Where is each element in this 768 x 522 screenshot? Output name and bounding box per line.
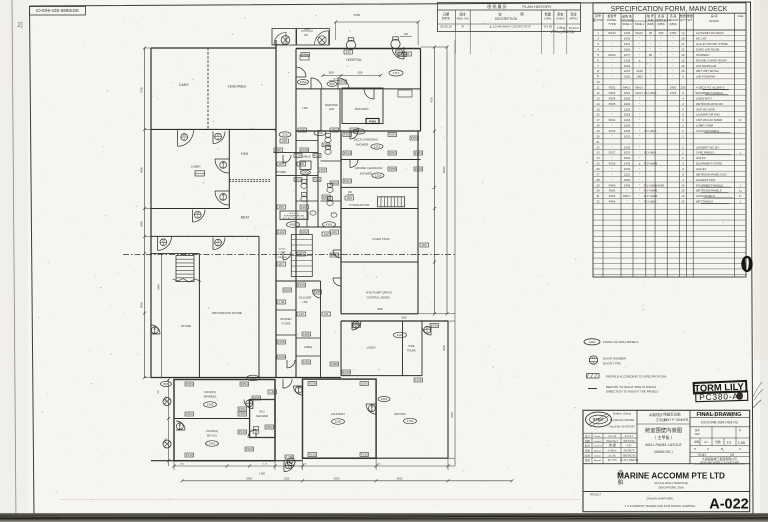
- hospital desk: [300, 55, 309, 60]
- svg-text:CLE: CLE: [738, 14, 744, 18]
- svg-text:VEGETABLE: VEGETABLE: [228, 85, 247, 89]
- svg-text:ALLWAYS UNIT: ALLWAYS UNIT: [696, 178, 716, 182]
- svg-text:2160: 2160: [670, 31, 677, 35]
- svg-text:P256: P256: [186, 382, 193, 386]
- svg-text:LOBBY: LOBBY: [191, 165, 201, 169]
- panel tag: [343, 179, 352, 183]
- wall: lobby bottom: [151, 208, 229, 210]
- svg-text:SPARE(A): SPARE(A): [203, 395, 216, 399]
- svg-text:05.10.1: 05.10.1: [625, 435, 634, 438]
- svg-text:19: 19: [596, 129, 600, 133]
- svg-text:WPS ALLOW LIQU (AT): WPS ALLOW LIQU (AT): [282, 217, 306, 220]
- svg-text:1000: 1000: [304, 28, 310, 31]
- svg-text:1062: 1062: [624, 124, 631, 128]
- svg-text:房 间: 房 间: [711, 13, 718, 18]
- oval 1717: [389, 70, 403, 76]
- panel tag: [360, 453, 369, 457]
- svg-text:": ": [660, 64, 661, 68]
- svg-text:SIDE 2: SIDE 2: [635, 22, 645, 26]
- svg-text:": ": [639, 151, 640, 155]
- svg-text:24: 24: [596, 156, 600, 160]
- panel tag: [414, 151, 423, 155]
- oval 230a: [301, 170, 311, 175]
- svg-text:DWT P. TANKER: DWT P. TANKER: [664, 418, 689, 422]
- svg-text:Tel:(8411)2-567890: Tel:(8411)2-567890: [610, 418, 634, 422]
- oval tag: [371, 144, 383, 149]
- svg-text:2400: 2400: [397, 476, 403, 480]
- svg-text:WT: WT: [687, 18, 692, 22]
- svg-text:15: 15: [596, 107, 600, 111]
- svg-text:1103: 1103: [301, 205, 308, 209]
- panel tag: [277, 340, 286, 344]
- vent circle on roof 1: [346, 38, 355, 50]
- svg-text:L1090: L1090: [277, 355, 286, 359]
- svg-text:PROJECT: PROJECT: [590, 494, 602, 497]
- wall: lkr partition: [320, 89, 322, 131]
- wall: center block west x341: [340, 131, 342, 314]
- panel tag: [252, 396, 261, 400]
- svg-text:": ": [672, 53, 673, 57]
- svg-text:4363: 4363: [250, 376, 257, 380]
- svg-text:吨级系泊舶: 吨级系泊舶: [664, 412, 682, 417]
- svg-text:150: 150: [304, 34, 309, 37]
- door: bath/wc north: [364, 89, 374, 99]
- oval tag: [204, 402, 217, 408]
- svg-text:14: 14: [681, 194, 685, 198]
- wall: main block bottom: [151, 377, 341, 379]
- oval 216: [279, 132, 291, 137]
- svg-text:17: 17: [596, 118, 600, 122]
- svg-text:PLAN HISTORY: PLAN HISTORY: [522, 4, 552, 9]
- svg-text:COOK(S): COOK(S): [204, 390, 216, 394]
- svg-text:1262: 1262: [624, 145, 631, 149]
- svg-text:27: 27: [596, 172, 600, 176]
- panel tag: [238, 430, 247, 434]
- svg-text:DESCRIPTION: DESCRIPTION: [495, 17, 517, 21]
- svg-text:50: 50: [649, 53, 653, 57]
- door: laundry-drying: [366, 404, 376, 414]
- svg-text:21: 21: [596, 140, 600, 144]
- svg-text:": ": [611, 134, 612, 138]
- svg-text:": ": [639, 42, 640, 46]
- door: lower corridor: [287, 360, 295, 368]
- svg-text:WALY.: WALY.: [635, 91, 643, 95]
- svg-text:P400: P400: [609, 183, 616, 187]
- stairs store: [176, 256, 194, 282]
- svg-text:ENGINE CASING ROOM: ENGINE CASING ROOM: [696, 58, 727, 62]
- svg-text:WET PANELS: WET PANELS: [696, 200, 713, 204]
- svg-text:图幅: 图幅: [695, 440, 700, 444]
- svg-text:": ": [672, 37, 673, 41]
- svg-text:1032: 1032: [624, 134, 631, 138]
- svg-text:": ": [611, 75, 612, 79]
- svg-text:25: 25: [649, 31, 653, 35]
- svg-text:SHOWER: SHOWER: [256, 414, 268, 418]
- svg-text:2 X 44,000DWT TANKER FOR KOM: 2 X 44,000DWT TANKER FOR KOM KRONG SHIPP…: [625, 504, 696, 508]
- dim line left inner: [161, 254, 163, 378]
- svg-text:": ": [660, 37, 661, 41]
- panel tag: [330, 128, 339, 132]
- dimension lines bottom: [174, 465, 455, 467]
- svg-text:FLY+WHB: FLY+WHB: [644, 189, 658, 193]
- room COOK block box: [174, 380, 275, 461]
- svg-text:CABLE: CABLE: [301, 155, 310, 159]
- svg-text:": ": [639, 113, 640, 117]
- svg-text:P216: P216: [239, 430, 246, 434]
- wall: right outer x448: [447, 321, 449, 458]
- svg-text:TRUNK: TRUNK: [407, 349, 416, 353]
- TORM LILY stamp: [694, 381, 747, 394]
- svg-text:CLOSE: CLOSE: [278, 251, 286, 253]
- door: cook upper: [244, 399, 253, 408]
- svg-text:(MM): (MM): [658, 22, 665, 26]
- svg-text:P118: P118: [186, 453, 193, 457]
- svg-text:211: 211: [324, 312, 329, 316]
- svg-text:": ": [650, 42, 651, 46]
- svg-text:": ": [660, 53, 661, 57]
- panel tag: [343, 151, 352, 155]
- svg-text:批准: 批准: [585, 458, 591, 462]
- wall: cable2 bottom: [296, 355, 321, 357]
- svg-text:": ": [650, 64, 651, 68]
- svg-text:BONDED: BONDED: [280, 317, 291, 321]
- svg-text:865: 865: [163, 382, 168, 386]
- panel tag: [360, 382, 369, 386]
- svg-text:2715: 2715: [670, 91, 677, 95]
- dashed partition dairy/vegetable: [207, 48, 209, 129]
- panel tag: [238, 412, 247, 416]
- svg-text:": ": [639, 48, 640, 52]
- panel tag: [294, 177, 302, 181]
- panel tag: [322, 143, 330, 147]
- svg-text:SHOWER: SHOWER: [360, 171, 373, 175]
- svg-text:REV: REV: [695, 433, 700, 436]
- svg-text:UNIT WC/LAV SHWR: UNIT WC/LAV SHWR: [696, 118, 722, 122]
- svg-text:P200: P200: [246, 447, 253, 451]
- svg-text:200: 200: [347, 196, 352, 200]
- svg-text:FLY+WHB: FLY+WHB: [644, 194, 658, 198]
- svg-text:4730: 4730: [429, 97, 433, 103]
- wall: hospital top: [296, 48, 421, 50]
- wall: wc cubicles top: [276, 175, 318, 177]
- wall: lobby/fish partition: [228, 129, 230, 208]
- panel tag: [330, 181, 339, 185]
- svg-text:DOOR NUMBER: DOOR NUMBER: [603, 357, 627, 361]
- svg-text:2105: 2105: [319, 168, 326, 172]
- svg-text:": ": [639, 200, 640, 204]
- svg-text:DECK CHANGING/: DECK CHANGING/: [354, 138, 379, 142]
- svg-text:2Wxzy4nGQe: 2Wxzy4nGQe: [551, 29, 576, 34]
- svg-text:4200: 4200: [334, 476, 340, 480]
- svg-text:2935: 2935: [164, 396, 167, 402]
- svg-text:1762: 1762: [407, 419, 414, 423]
- svg-text:LOBBY STAIR: LOBBY STAIR: [696, 124, 713, 128]
- svg-text:1300: 1300: [284, 476, 290, 480]
- svg-text:32: 32: [596, 200, 600, 204]
- svg-text:S.lWnr: S.lWnr: [607, 449, 617, 453]
- svg-text:SPECIFICATION FORM, MAIN DE: SPECIFICATION FORM, MAIN DECK: [611, 6, 728, 13]
- svg-text:25: 25: [596, 162, 600, 166]
- svg-text:DALIAN SHIPYARD: DALIAN SHIPYARD: [647, 497, 675, 501]
- svg-text:P403: P403: [609, 194, 616, 198]
- panel tag: [274, 148, 283, 152]
- svg-text:F<: F<: [739, 194, 743, 198]
- svg-text:图 纸 履 历: 图 纸 履 历: [487, 3, 506, 9]
- svg-text:0BY3Y(5)Y: 0BY3Y(5)Y: [623, 454, 636, 457]
- svg-text:": ": [611, 107, 612, 111]
- oval 146a: [298, 80, 309, 85]
- svg-text:4730: 4730: [140, 87, 144, 93]
- svg-text:(MM): (MM): [647, 22, 654, 26]
- oval tag 4361 right: [323, 222, 336, 228]
- svg-text:": ": [611, 124, 612, 128]
- svg-text:F<: F<: [739, 118, 743, 122]
- svg-text:Ye.7Th: Ye.7Th: [608, 458, 617, 462]
- svg-text:P256: P256: [389, 133, 396, 137]
- wall: dairy block bottom: [151, 128, 276, 130]
- svg-text:Py00: Py00: [609, 189, 616, 193]
- svg-text:1215: 1215: [624, 69, 631, 73]
- svg-text:STORE: STORE: [282, 322, 291, 326]
- svg-text:25: 25: [681, 189, 685, 193]
- svg-text:18: 18: [681, 37, 685, 41]
- svg-text:LKR: LKR: [302, 106, 307, 110]
- svg-text:P216: P216: [609, 129, 616, 133]
- svg-text:": ": [660, 42, 661, 46]
- svg-text:2176: 2176: [339, 80, 346, 84]
- panel tag: [285, 455, 294, 459]
- svg-text:": ": [611, 37, 612, 41]
- svg-text:FOAM TANK: FOAM TANK: [372, 237, 389, 241]
- svg-text:SIDE 1: SIDE 1: [622, 22, 632, 26]
- svg-text:15: 15: [681, 58, 685, 62]
- svg-text:22: 22: [681, 48, 685, 52]
- svg-text:": ": [639, 129, 640, 133]
- svg-text:234: 234: [317, 131, 322, 135]
- wall: cable2 top: [296, 337, 321, 339]
- svg-text:P250: P250: [369, 120, 376, 124]
- svg-text:30 HUL HIGH TERRACE: 30 HUL HIGH TERRACE: [654, 481, 688, 485]
- svg-text:": ": [611, 167, 612, 171]
- panel tag: [297, 252, 306, 256]
- svg-text:226: 226: [300, 128, 305, 132]
- panel tag: [338, 80, 347, 84]
- wall: medicine lkr partition: [339, 89, 341, 131]
- svg-text:4018: 4018: [314, 153, 321, 157]
- svg-text:2128: 2128: [301, 148, 308, 152]
- svg-text:WET UNIT WC/SH: WET UNIT WC/SH: [696, 69, 719, 73]
- door: laundry west: [294, 386, 303, 395]
- door: hospital west: [296, 67, 306, 77]
- svg-text:11: 11: [596, 86, 599, 90]
- svg-text:DIRECTION TO MOUNT THE PAN: DIRECTION TO MOUNT THE PANELS: [606, 390, 658, 394]
- svg-text:": ": [639, 102, 640, 106]
- svg-text:Approd: Approd: [594, 459, 602, 462]
- wall: deck/engine changing split: [341, 159, 421, 161]
- svg-text:20: 20: [596, 134, 600, 138]
- panel tag: [352, 324, 361, 328]
- bottom dark scanner strip: [0, 513, 768, 522]
- svg-text:1262: 1262: [207, 403, 214, 407]
- panel tag: [302, 360, 311, 364]
- svg-text:": ": [650, 75, 651, 79]
- svg-text:13: 13: [596, 96, 600, 100]
- panel tag: [313, 290, 322, 294]
- wall: bonded store top: [276, 309, 296, 311]
- svg-text:FINISH OF WALLPANELS: FINISH OF WALLPANELS: [603, 340, 638, 344]
- svg-text:DRYING: DRYING: [394, 412, 406, 416]
- note box with dense text: [280, 211, 308, 220]
- wall: pipe trunk east: [421, 321, 423, 376]
- svg-text:14: 14: [681, 183, 685, 187]
- svg-text:": ": [611, 58, 612, 62]
- legend: mount direction dash: [588, 388, 597, 390]
- centerline dash-dot: [123, 254, 455, 256]
- svg-text:": ": [626, 189, 627, 193]
- paper crease line: [60, 499, 580, 501]
- svg-text:": ": [611, 48, 612, 52]
- svg-text:2504: 2504: [266, 425, 273, 429]
- oval tag 4361 left: [287, 222, 300, 228]
- panel tag: [330, 230, 339, 234]
- svg-text:P258: P258: [309, 382, 316, 386]
- svg-text:OILCLEAR: OILCLEAR: [299, 296, 312, 300]
- svg-text:952: 952: [329, 82, 334, 86]
- svg-text:": ": [611, 178, 612, 182]
- door: corridor a: [283, 155, 291, 163]
- panel tag: [277, 300, 286, 304]
- panel tag: [344, 50, 353, 54]
- company logo: [586, 412, 612, 427]
- svg-text:EQUIPMENT PANELS: EQUIPMENT PANELS: [696, 183, 723, 187]
- svg-text:板 PNO: 板 PNO: [593, 17, 604, 22]
- wall: cubicle divider x307: [306, 176, 308, 227]
- svg-text:J.w 2f: J.w 2f: [608, 434, 617, 438]
- panel tag: [388, 167, 397, 171]
- svg-text:209: 209: [299, 252, 304, 256]
- wall: deckhouse top (left block): [151, 47, 276, 49]
- svg-text:LKR ROOM LKR: LKR ROOM LKR: [696, 64, 716, 68]
- svg-text:P253: P253: [415, 151, 422, 155]
- svg-text:PROVISIONS STORE: PROVISIONS STORE: [212, 311, 242, 315]
- legend: door number circle: [589, 356, 597, 365]
- wall: cubicle sub y140: [296, 140, 318, 142]
- svg-text:1216: 1216: [374, 145, 381, 149]
- oval 4363: [247, 375, 260, 381]
- door: deck changing: [350, 131, 358, 139]
- svg-text:H3 光: H3 光: [544, 24, 552, 29]
- svg-text:-: -: [740, 163, 741, 166]
- svg-text:TO ENG.ROOM: TO ENG.ROOM: [349, 203, 370, 207]
- svg-text:-: -: [740, 130, 741, 133]
- svg-text:": ": [672, 48, 673, 52]
- svg-text:22: 22: [596, 145, 600, 149]
- svg-text:1.982: 1.982: [259, 472, 266, 475]
- door: lkr from hospital: [311, 78, 322, 89]
- wc fixtures: [253, 427, 259, 435]
- svg-text:215a: 215a: [302, 53, 309, 57]
- svg-text:300a: 300a: [314, 177, 321, 181]
- door: foam tank: [333, 250, 341, 258]
- svg-text:4002: 4002: [301, 230, 308, 234]
- dim line bottom 2: [182, 480, 512, 482]
- panel tag: [388, 133, 397, 137]
- svg-text:2255: 2255: [239, 412, 246, 416]
- svg-text:4361: 4361: [290, 223, 297, 227]
- svg-text:8700: 8700: [354, 13, 361, 17]
- svg-text:FISH: FISH: [241, 152, 249, 156]
- svg-text:": ": [611, 145, 612, 149]
- svg-text:DOOR TYPE: DOOR TYPE: [603, 362, 621, 366]
- porthole symbol cook wall 2: [163, 440, 171, 448]
- dimension line left outer: [144, 48, 146, 378]
- svg-text:3000: 3000: [442, 345, 446, 351]
- panel tag: [245, 447, 254, 451]
- svg-text:ALUM FR PANELS: ALUM FR PANELS: [696, 129, 719, 133]
- handwritten circled 10: [742, 257, 751, 271]
- svg-text:2254: 2254: [186, 412, 193, 416]
- svg-text:": ": [639, 134, 640, 138]
- svg-text:254: 254: [332, 128, 337, 132]
- svg-text:": ": [660, 69, 661, 73]
- wall: corridor south x341-418: [341, 208, 418, 210]
- vent circle on roof 2: [391, 37, 400, 49]
- svg-text:146a: 146a: [300, 80, 307, 84]
- svg-text:Fax:0411-42-667097: Fax:0411-42-667097: [609, 425, 635, 429]
- svg-text:": ": [611, 64, 612, 68]
- svg-text:1058: 1058: [278, 340, 285, 344]
- dashed shelf line fish/meat: [229, 179, 271, 181]
- svg-text:4300: 4300: [377, 307, 383, 311]
- oval 1250: [353, 129, 365, 134]
- svg-text:版本: 版本: [695, 428, 700, 432]
- wall: cook rooms split: [174, 418, 250, 420]
- panel tag: [300, 230, 309, 234]
- door: store west: [151, 325, 160, 334]
- svg-text:P226: P226: [284, 288, 291, 292]
- svg-text:1535: 1535: [624, 96, 631, 100]
- svg-text:1062: 1062: [624, 75, 631, 79]
- wall: x320.5 lower: [320, 281, 322, 378]
- wall: corridor west: [275, 40, 277, 378]
- svg-text:1062: 1062: [636, 75, 643, 79]
- signature grid: [583, 432, 637, 434]
- svg-text:P214: P214: [344, 151, 351, 155]
- svg-text:WALL PANEL LAYOUT: WALL PANEL LAYOUT: [645, 443, 683, 447]
- svg-text:P151: P151: [411, 136, 418, 140]
- svg-text:1262: 1262: [589, 340, 596, 344]
- svg-text:": ": [639, 64, 640, 68]
- panel tag: [185, 412, 194, 416]
- svg-text:4-86: 4-86: [269, 390, 275, 394]
- lobby lift box: [195, 171, 205, 176]
- svg-text:": ": [639, 96, 640, 100]
- svg-text:4090: 4090: [140, 167, 144, 173]
- extra fixtures: [310, 211, 316, 215]
- panel tag: [300, 148, 309, 152]
- svg-text:600: 600: [659, 31, 664, 35]
- svg-text:1062: 1062: [624, 178, 631, 182]
- svg-text:DAIRY LKR ROOM: DAIRY LKR ROOM: [696, 48, 720, 52]
- svg-text:EQUIPMENT PANELS: EQUIPMENT PANELS: [696, 91, 723, 95]
- svg-text:B: B: [721, 447, 723, 451]
- svg-text:STORE: STORE: [181, 324, 191, 328]
- svg-text:1906: 1906: [303, 332, 310, 336]
- panel tag: [185, 382, 194, 386]
- svg-text:A1: A1: [704, 440, 708, 444]
- svg-text:": ": [650, 69, 651, 73]
- svg-text:QTY: QTY: [680, 18, 686, 22]
